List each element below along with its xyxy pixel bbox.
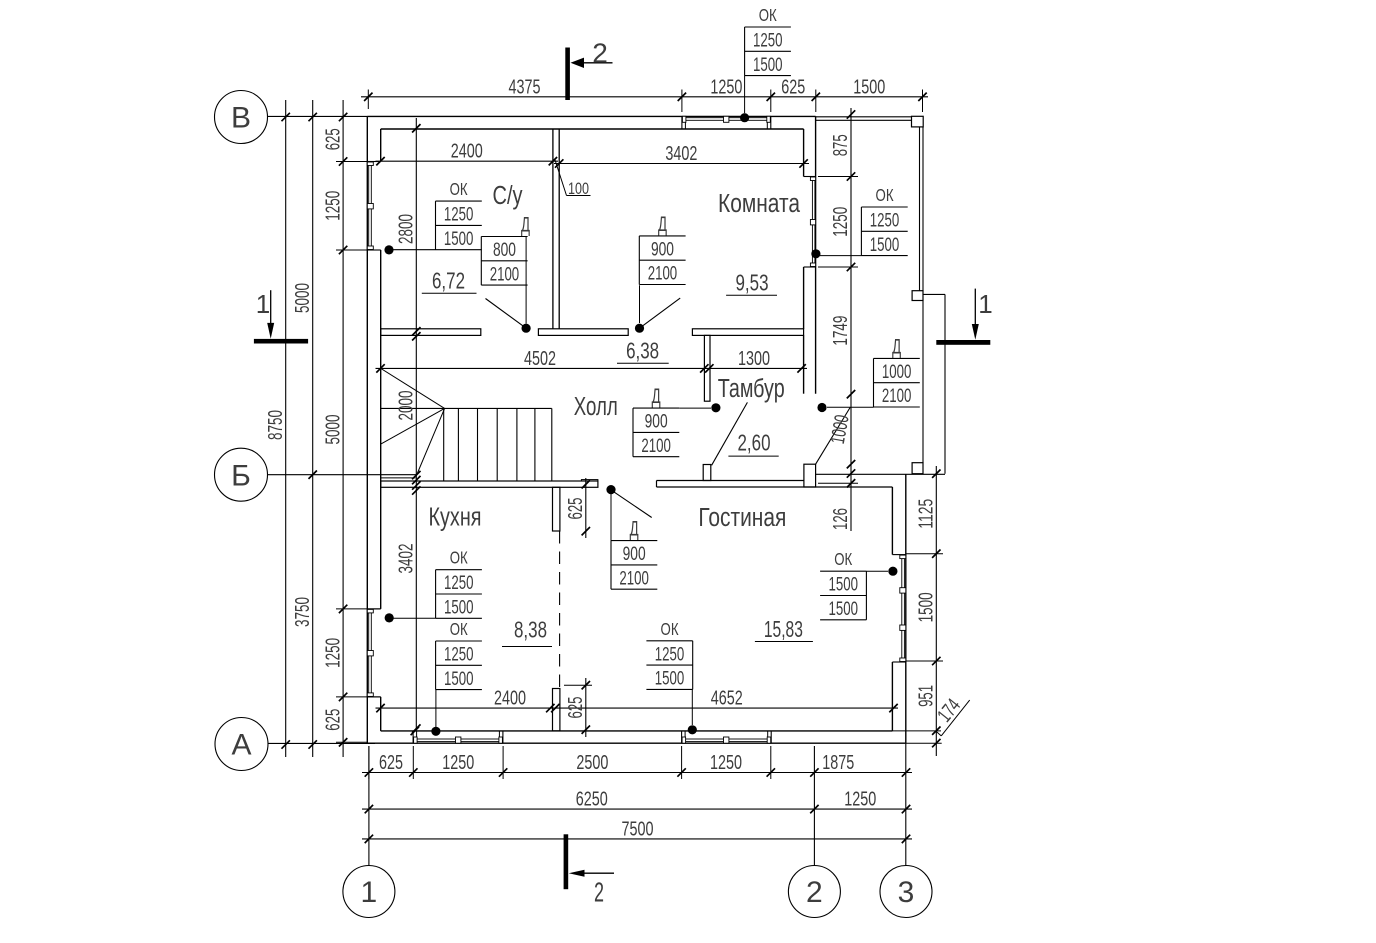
svg-text:1250: 1250: [444, 204, 474, 226]
door Д900 Гостиная leaf: [612, 491, 652, 518]
svg-text:3750: 3750: [291, 597, 314, 627]
svg-text:2: 2: [806, 876, 823, 909]
dimension chain left windows 625 1250 5000 1250 625: [342, 100, 344, 757]
svg-text:В: В: [231, 102, 251, 135]
svg-text:3402: 3402: [395, 544, 418, 574]
dimension line bottom 7500: [362, 838, 912, 840]
window ОК bottom wall Гостиная: [681, 731, 683, 743]
svg-text:951: 951: [915, 685, 938, 707]
axis witness line 3: [905, 743, 907, 865]
svg-text:1: 1: [256, 289, 270, 319]
svg-text:1250: 1250: [753, 30, 783, 52]
leader Комната window: [820, 255, 861, 257]
leader Комната door: [639, 285, 641, 323]
section mark 1 right: [936, 340, 990, 345]
axis line В: [268, 115, 368, 117]
svg-text:2,60: 2,60: [738, 430, 771, 456]
svg-text:1500: 1500: [655, 668, 685, 690]
leader Су door: [525, 237, 527, 324]
table Д 1000х2100 entrance door: [874, 357, 920, 359]
svg-text:2800: 2800: [395, 214, 418, 244]
leader Гостиная right window: [866, 570, 888, 572]
Гостиная north wall: [657, 480, 804, 482]
svg-text:2500: 2500: [576, 751, 608, 774]
dimension 4502 1300 Холл-Тамбур: [376, 367, 808, 369]
right wall inner face: [891, 487, 893, 555]
window ОК Гостиная right wall: [892, 554, 905, 556]
door Д900 Гостиная hinge dot: [606, 485, 615, 494]
leader dot Су window: [384, 245, 393, 254]
svg-text:ОК: ОК: [661, 619, 680, 639]
svg-text:8,38: 8,38: [514, 617, 547, 643]
Кухня-Гостиная divider top stub: [553, 487, 560, 531]
dimension chain right 875 1250 1749 1000 126: [850, 108, 852, 531]
svg-text:ОК: ОК: [876, 185, 895, 205]
komnata right wall outer face: [815, 116, 817, 393]
leader dot Гостиная bottom window: [688, 725, 697, 734]
door Д900 Комната hinge dot: [635, 324, 644, 333]
svg-text:2000: 2000: [395, 391, 418, 421]
dimension chain right 1125 1500 951 174: [935, 466, 937, 756]
top wall outer face: [367, 115, 815, 117]
witness stubs left window edges: [336, 161, 381, 163]
axis circle 2: [788, 866, 840, 918]
svg-text:7500: 7500: [622, 817, 654, 840]
wall between Су and Комната: [552, 129, 554, 329]
witness stubs right upper chain: [818, 176, 858, 178]
bay bottom column: [912, 463, 923, 474]
svg-text:2: 2: [594, 877, 604, 908]
axis circle 1: [343, 866, 395, 918]
leader dot Гостиная right window: [888, 567, 897, 576]
svg-text:1000: 1000: [882, 361, 912, 383]
svg-text:2400: 2400: [451, 140, 483, 163]
leader entrance door: [827, 406, 874, 408]
axis witness line 1: [368, 746, 370, 865]
bottom wall inner face: [381, 730, 893, 732]
svg-text:2: 2: [592, 38, 608, 69]
leader Тамбур door: [679, 407, 711, 409]
svg-text:1250: 1250: [710, 751, 742, 774]
svg-text:875: 875: [829, 134, 852, 156]
leader Гостиная door: [610, 494, 612, 541]
wall south of Су (left piece): [381, 329, 481, 336]
dimension line top 4375 1250 625 1500: [361, 96, 928, 98]
svg-text:15,83: 15,83: [764, 616, 803, 642]
svg-text:4375: 4375: [509, 75, 541, 98]
svg-text:ОК: ОК: [450, 548, 469, 568]
svg-text:1500: 1500: [444, 668, 474, 690]
svg-text:625: 625: [564, 697, 587, 719]
svg-text:Д: Д: [652, 385, 661, 408]
svg-text:ОК: ОК: [450, 619, 469, 639]
svg-text:900: 900: [623, 543, 646, 565]
wall between Кухня and Холл: [381, 481, 598, 487]
svg-text:625: 625: [781, 75, 805, 98]
svg-text:1250: 1250: [321, 638, 344, 668]
svg-text:1250: 1250: [442, 751, 474, 774]
svg-text:1250: 1250: [444, 644, 474, 666]
axis line А: [268, 742, 375, 744]
svg-text:ОК: ОК: [759, 5, 778, 25]
svg-text:625: 625: [321, 128, 344, 150]
left wall inner face: [380, 129, 382, 162]
section mark 2 bottom: [564, 834, 569, 889]
door Д900 Тамбур reference dot: [711, 403, 720, 412]
svg-text:6,38: 6,38: [626, 337, 659, 363]
top wall inner face: [381, 128, 804, 130]
bay right wall double line: [919, 127, 921, 291]
window ОК left wall Су: [367, 161, 380, 163]
witness lines bottom: [368, 746, 370, 779]
table Д 900х2100 Комната door: [639, 235, 685, 237]
stair winder radiating lines: [381, 368, 445, 408]
axis line Б: [268, 474, 417, 476]
svg-text:А: А: [231, 729, 251, 762]
axis witness line 2: [813, 746, 815, 865]
svg-text:Д: Д: [630, 518, 639, 541]
bay top wall double line: [816, 116, 912, 118]
table ОК 1250х1500 Кухня left window: [436, 569, 482, 571]
table ОК 1250х1500 Гостиная bottom window: [646, 640, 692, 642]
svg-text:Холл: Холл: [574, 393, 618, 421]
svg-text:Кухня: Кухня: [429, 504, 482, 532]
door Д900 Тамбур leaf: [712, 402, 748, 465]
svg-text:1500: 1500: [829, 574, 859, 596]
svg-text:Д: Д: [521, 214, 530, 237]
leader Кухня bottom window: [435, 690, 437, 727]
axis circle А: [215, 718, 268, 771]
dimension line bottom chain 625 1250 2500 1250 1875: [362, 772, 912, 774]
svg-text:4652: 4652: [711, 687, 743, 710]
table ОК 1250х1500 top window: [745, 26, 791, 28]
svg-text:2400: 2400: [494, 687, 526, 710]
axis circle 3: [880, 866, 932, 918]
stair flight treads: [443, 408, 445, 481]
stair winder bottom edge: [381, 477, 416, 479]
svg-text:1500: 1500: [753, 54, 783, 76]
porch floor edge line: [816, 473, 945, 475]
svg-text:6250: 6250: [576, 788, 608, 811]
table ОК 1500х1500 Гостиная right window: [820, 570, 866, 572]
svg-text:900: 900: [651, 238, 674, 260]
svg-text:3: 3: [898, 876, 915, 909]
svg-text:Б: Б: [231, 459, 251, 492]
Тамбур left wall stub: [704, 335, 710, 401]
section mark 2 top: [565, 48, 570, 101]
leader dot Кухня bottom window: [431, 727, 440, 736]
leader Гостиная bottom window: [691, 689, 693, 725]
svg-text:1250: 1250: [829, 207, 852, 237]
bay corner column top: [912, 116, 924, 127]
Кухня-Гостиная boundary dashed line: [559, 531, 561, 689]
svg-text:1500: 1500: [829, 598, 859, 620]
right wall outer face: [905, 474, 907, 743]
jamb sliver at Кухня wall end: [581, 480, 598, 481]
dimension chain 8750: [285, 100, 287, 757]
svg-text:900: 900: [645, 411, 668, 433]
table Д 900х2100 Тамбур door: [633, 407, 679, 409]
svg-text:625: 625: [564, 498, 587, 520]
svg-text:625: 625: [321, 709, 344, 731]
svg-text:2100: 2100: [619, 567, 649, 589]
wall south of Су-Комната (middle piece): [538, 329, 628, 336]
door Д800 Су hinge dot: [522, 324, 531, 333]
leader dot top window: [740, 113, 749, 122]
svg-text:1250: 1250: [844, 788, 876, 811]
window ОК top wall: [681, 116, 683, 129]
svg-text:1250: 1250: [655, 643, 685, 665]
porch outline right: [923, 293, 945, 295]
svg-text:1250: 1250: [321, 191, 344, 221]
dimension 625 Гостиная lower stub: [585, 678, 587, 737]
door Д800 Су leaf: [486, 299, 527, 329]
window ОК bottom wall Кухня: [412, 731, 414, 743]
door Д900 Комната leaf: [640, 298, 681, 328]
svg-text:1250: 1250: [870, 210, 900, 232]
svg-text:Гостиная: Гостиная: [698, 504, 786, 532]
witness lines top: [367, 90, 369, 110]
table ОК 1250х1500 Комната window: [861, 206, 907, 208]
svg-text:800: 800: [493, 239, 516, 261]
svg-text:1125: 1125: [915, 499, 938, 529]
leader dot Кухня left window: [385, 613, 394, 622]
svg-text:2100: 2100: [641, 435, 671, 457]
dimension column 2800 2000 3402 vertical: [415, 118, 417, 729]
axis circle В: [215, 91, 268, 144]
dimension 625 Гостиная upper stub: [585, 478, 587, 538]
window ОК Комната right wall: [804, 176, 816, 178]
svg-text:2100: 2100: [882, 385, 912, 407]
svg-text:Комната: Комната: [718, 190, 801, 218]
dimension 2400 Су interior: [376, 160, 559, 162]
svg-text:ОК: ОК: [834, 549, 853, 569]
svg-text:5000: 5000: [321, 415, 344, 445]
svg-text:Д: Д: [658, 213, 667, 236]
svg-text:5000: 5000: [291, 283, 314, 313]
dimension 2400 4652 Кухня Гостиная bottom interior: [376, 707, 899, 709]
table Д 900х2100 Гостиная door: [611, 540, 657, 542]
Тамбур door jamb stub: [703, 465, 711, 481]
leader Кухня left window: [389, 617, 435, 619]
note 100 wall thickness: [555, 160, 567, 196]
leader dot Комната window: [811, 249, 820, 258]
svg-text:ОК: ОК: [450, 179, 469, 199]
dimension line bottom 6250 1250: [362, 808, 912, 810]
svg-text:1: 1: [978, 289, 992, 319]
witness stubs right lower chain: [906, 553, 943, 555]
svg-text:1250: 1250: [710, 75, 742, 98]
svg-text:1749: 1749: [829, 316, 852, 346]
witness slash window edge: [411, 727, 419, 735]
door Д1000 entrance leaf: [816, 408, 851, 465]
svg-text:6,72: 6,72: [432, 268, 465, 294]
door Д1000 entrance reference dot: [817, 403, 826, 412]
svg-text:1: 1: [361, 876, 378, 909]
axis circle Б: [215, 448, 268, 501]
svg-text:Д: Д: [892, 335, 901, 358]
svg-text:Тамбур: Тамбур: [718, 375, 785, 403]
svg-text:1500: 1500: [915, 592, 938, 622]
svg-text:1500: 1500: [444, 597, 474, 619]
svg-text:3402: 3402: [665, 142, 697, 165]
svg-text:1875: 1875: [822, 751, 854, 774]
section mark 1 left: [254, 339, 308, 344]
leader top window: [744, 76, 746, 113]
svg-text:9,53: 9,53: [736, 270, 769, 296]
svg-text:8750: 8750: [264, 410, 287, 440]
dimension 3402 Комната interior: [554, 163, 809, 165]
Тамбур south-east corner block: [804, 464, 816, 487]
wall north of Тамбур (right piece): [692, 329, 803, 336]
svg-text:1500: 1500: [870, 234, 900, 256]
svg-text:2100: 2100: [490, 263, 520, 285]
table ОК 1250х1500 Кухня bottom window: [436, 640, 482, 642]
komnata right wall inner face: [803, 129, 805, 177]
bottom wall outer face: [367, 742, 906, 744]
table Д 800х2100 Су door: [481, 236, 527, 238]
svg-text:4502: 4502: [524, 347, 556, 370]
svg-text:1500: 1500: [853, 75, 885, 98]
svg-text:1300: 1300: [738, 347, 770, 370]
bay middle column: [912, 291, 923, 301]
svg-text:1500: 1500: [444, 228, 474, 250]
svg-text:1250: 1250: [444, 572, 474, 594]
table ОК 1250х1500 Су window: [436, 200, 482, 202]
svg-text:126: 126: [829, 508, 852, 530]
svg-text:С/у: С/у: [493, 182, 523, 210]
dimension chain 5000 3750: [312, 100, 314, 757]
svg-text:625: 625: [379, 751, 403, 774]
dimension note 174 with leader: [936, 732, 941, 736]
left wall outer face: [366, 116, 368, 743]
Кухня-Гостиная divider bottom stub: [553, 689, 560, 731]
svg-text:2100: 2100: [648, 263, 678, 285]
window ОК left wall Кухня: [367, 608, 380, 610]
